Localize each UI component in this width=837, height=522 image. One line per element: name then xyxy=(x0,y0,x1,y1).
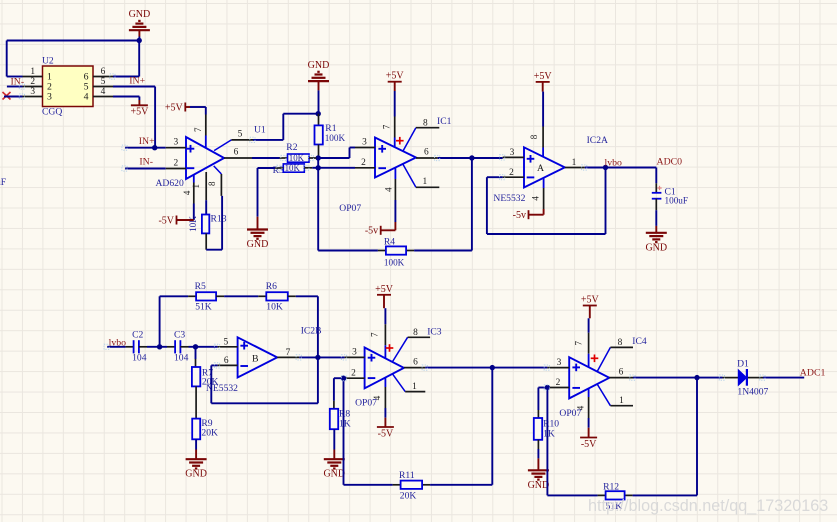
svg-text:GND: GND xyxy=(185,469,207,480)
AD620 pin8 xyxy=(207,166,221,196)
svg-text:3: 3 xyxy=(557,358,562,368)
svg-text:GND: GND xyxy=(528,480,550,491)
svg-text:6: 6 xyxy=(101,67,106,77)
svg-text:10K: 10K xyxy=(285,163,301,173)
wire R6 to output junction xyxy=(296,296,318,357)
wire R5 to R6 xyxy=(224,295,266,297)
wire C2 to C3 xyxy=(139,346,175,348)
svg-text:100K: 100K xyxy=(384,257,405,267)
junction R2 right / R1 bottom xyxy=(316,155,321,160)
wire AD620 pin6 to R2 xyxy=(252,157,288,159)
svg-text:4: 4 xyxy=(576,405,586,410)
junction C3-R7 xyxy=(193,344,198,367)
resistor R10 1K xyxy=(534,388,559,440)
IC3 pin3 xyxy=(345,348,365,358)
IC2A pin8 xyxy=(529,92,543,157)
svg-text:-5V: -5V xyxy=(158,215,174,226)
wire IC2A output to ADC0 xyxy=(585,167,657,169)
svg-text:7: 7 xyxy=(381,124,391,129)
power +5V to IC3 pin7 xyxy=(375,284,394,308)
svg-text:+5V: +5V xyxy=(534,71,553,82)
svg-text:8: 8 xyxy=(423,118,428,128)
svg-text:D1: D1 xyxy=(737,359,749,370)
wire IC2B feedback loop xyxy=(211,357,318,403)
svg-text:IN+: IN+ xyxy=(139,136,155,147)
svg-text:-5V: -5V xyxy=(378,428,394,439)
svg-text:20K: 20K xyxy=(400,490,417,501)
svg-text:10K: 10K xyxy=(266,301,283,312)
ground GND below C1 xyxy=(645,210,667,253)
svg-text:GND: GND xyxy=(247,239,269,250)
svg-text:7: 7 xyxy=(370,332,380,337)
wire IC2A feedback loop xyxy=(487,168,606,235)
net label ADC0 xyxy=(657,157,683,168)
net label lvbo at C2 xyxy=(107,337,133,348)
junction lvbo xyxy=(603,158,622,171)
IC2A pin1 output xyxy=(565,158,585,168)
svg-text:3: 3 xyxy=(510,148,515,158)
ground GND above R1 xyxy=(308,60,330,114)
op-amp IC4 OP07 triangle xyxy=(559,357,609,419)
IC3 pin7 xyxy=(370,308,386,358)
svg-text:4: 4 xyxy=(531,196,541,201)
svg-text:A: A xyxy=(537,163,544,174)
junction C2-C3 to R5 branch xyxy=(157,296,162,349)
IC2B pin7 output xyxy=(277,348,299,358)
IC2B pin5 xyxy=(218,338,238,348)
wire R3 junction to OP07 pin2 xyxy=(318,167,355,169)
svg-text:2: 2 xyxy=(556,378,561,388)
svg-text:6: 6 xyxy=(424,148,429,158)
power +5V to IC2A pin8 xyxy=(534,71,553,92)
op-amp IC1 OP07 triangle xyxy=(339,138,416,215)
svg-text:GND: GND xyxy=(645,242,667,253)
svg-text:3: 3 xyxy=(47,92,52,103)
svg-text:2: 2 xyxy=(351,369,356,379)
svg-text:2: 2 xyxy=(173,158,178,168)
svg-text:5: 5 xyxy=(238,130,243,140)
svg-text:OP07: OP07 xyxy=(339,203,361,214)
stray text uF at left edge xyxy=(0,177,6,188)
svg-text:IC3: IC3 xyxy=(427,326,442,337)
svg-text:-5v: -5v xyxy=(365,226,378,237)
op-amp IC2A NE5532 triangle xyxy=(493,135,608,204)
net label IN- at AD620 xyxy=(125,157,166,169)
svg-text:IC4: IC4 xyxy=(632,336,647,347)
resistor R5 51K xyxy=(160,281,225,313)
svg-text:R2: R2 xyxy=(286,142,297,153)
capacitor C1 100uF xyxy=(652,183,688,210)
IC1 pin6 output xyxy=(416,148,438,159)
AD620 pin1 xyxy=(191,172,206,200)
svg-text:8: 8 xyxy=(529,134,539,139)
svg-text:R6: R6 xyxy=(266,281,277,292)
svg-text:8: 8 xyxy=(618,338,623,348)
svg-text:6: 6 xyxy=(413,358,418,368)
svg-text:ADC0: ADC0 xyxy=(657,157,683,168)
junction feedback R4 xyxy=(469,155,474,160)
ground GND below R10 xyxy=(528,440,550,491)
svg-text:+5V: +5V xyxy=(581,295,600,306)
AD620 pin6 output xyxy=(224,148,252,159)
wire R13 bottom loop to pin8 xyxy=(206,196,222,250)
svg-text:-5V: -5V xyxy=(581,439,597,450)
AD620 pin3 input xyxy=(166,138,186,148)
svg-text:4: 4 xyxy=(84,92,89,103)
svg-text:+5V: +5V xyxy=(386,71,405,82)
IC4 pin7 xyxy=(574,318,589,367)
resistor R4 100K xyxy=(384,236,406,267)
wire GND junction down to U2 pin6 xyxy=(113,41,139,77)
component U2 CGQ body xyxy=(42,55,93,117)
IC4 pin4 and -5V xyxy=(576,388,598,449)
IC2A pin3 xyxy=(503,148,524,158)
svg-text:-5v: -5v xyxy=(513,210,526,221)
svg-text:1K: 1K xyxy=(543,429,555,440)
svg-text:7: 7 xyxy=(193,127,203,132)
op-amp IC2B NE5532 triangle xyxy=(206,325,321,394)
svg-text:IC2A: IC2A xyxy=(587,135,608,146)
IC4 pin6 output xyxy=(609,368,633,378)
svg-text:+5V: +5V xyxy=(375,284,394,295)
wire feedback through R4 xyxy=(318,158,472,251)
svg-text:5: 5 xyxy=(223,338,228,348)
IC4 pin2 xyxy=(547,378,569,388)
svg-text:104: 104 xyxy=(132,353,147,364)
AD620 pin7 xyxy=(193,107,206,148)
IC3 pin8 stub xyxy=(393,326,442,361)
svg-text:R13: R13 xyxy=(211,214,227,225)
svg-text:4: 4 xyxy=(182,190,192,195)
power +5V on U2 pin4 xyxy=(113,97,149,118)
svg-text:100K: 100K xyxy=(325,133,346,143)
svg-text:10K: 10K xyxy=(289,153,305,163)
svg-text:8: 8 xyxy=(207,181,217,186)
IC3 pin1 stub xyxy=(393,374,426,392)
svg-text:6: 6 xyxy=(224,356,229,366)
svg-text:R4: R4 xyxy=(384,236,395,247)
IC4 red plus supply mark xyxy=(591,355,599,363)
svg-text:8: 8 xyxy=(413,328,418,338)
U2 pins right 6 5 4 xyxy=(84,67,113,102)
wire IC4 output to D1 xyxy=(633,377,723,379)
IC3 pin4 and -5V xyxy=(372,378,394,440)
ground GND top-left xyxy=(129,9,151,41)
AD620 pin2 input xyxy=(166,158,186,168)
junction IN+ wire xyxy=(152,145,157,150)
svg-text:1: 1 xyxy=(30,67,35,77)
svg-text:1: 1 xyxy=(572,158,577,168)
wire D1 to ADC1 xyxy=(763,377,804,379)
power +5V to AD620 pin7 xyxy=(165,102,206,113)
svg-text:ADC1: ADC1 xyxy=(800,367,826,378)
net label IN+ at AD620 xyxy=(125,136,166,148)
diode D1 1N4007 xyxy=(723,359,769,398)
resistor R2 10K xyxy=(286,142,309,163)
svg-text:3: 3 xyxy=(30,87,35,97)
wire U2 pin5 to AD620 IN+ xyxy=(113,87,155,148)
svg-text:+5V: +5V xyxy=(130,107,149,118)
net label IN- on U2 pin2 xyxy=(7,76,24,87)
svg-text:GND: GND xyxy=(323,469,345,480)
resistor R8 1K xyxy=(330,378,351,430)
svg-text:5: 5 xyxy=(101,77,106,87)
IC1 pin4 and -5v xyxy=(365,168,396,237)
svg-text:4: 4 xyxy=(101,87,106,97)
svg-text:100uF: 100uF xyxy=(665,196,689,206)
svg-text:2: 2 xyxy=(361,158,366,168)
svg-text:20K: 20K xyxy=(201,427,218,438)
svg-text:IC1: IC1 xyxy=(437,116,452,127)
IC1 pin2 xyxy=(355,158,375,168)
junction IC3 output feedback xyxy=(490,365,495,370)
ground GND below R3 wire xyxy=(247,168,269,250)
svg-text:uF: uF xyxy=(0,177,6,188)
power +5V to IC1 pin7 xyxy=(386,71,405,91)
junction R3 right xyxy=(304,158,321,171)
svg-text:4: 4 xyxy=(384,187,394,192)
watermark xyxy=(588,497,828,515)
svg-text:NE5532: NE5532 xyxy=(493,193,525,204)
svg-text:3: 3 xyxy=(352,348,357,358)
hotspot markers xyxy=(19,74,765,390)
svg-text:1: 1 xyxy=(619,396,624,406)
junction IC4 output feedback xyxy=(694,375,699,380)
svg-text:1: 1 xyxy=(422,177,427,187)
resistor R11 20K xyxy=(399,470,422,501)
svg-text:2: 2 xyxy=(30,77,35,87)
IC3 pin6 output xyxy=(404,358,425,368)
svg-text:C3: C3 xyxy=(174,330,185,341)
resistor R12 51K xyxy=(603,481,625,512)
IC1 pin8 stub xyxy=(403,116,452,152)
IC4 pin8 stub xyxy=(597,336,647,372)
wire U2 pin1 to GND net xyxy=(7,41,140,77)
wire IC1 output to IC2A pin3 xyxy=(438,157,503,159)
ground GND below R8 xyxy=(323,429,345,480)
resistor R1 100K xyxy=(315,114,346,158)
svg-text:IN-: IN- xyxy=(139,157,153,168)
wire R7 to R9 xyxy=(195,386,197,418)
svg-text:R5: R5 xyxy=(195,281,206,292)
IC4 pin1 stub xyxy=(597,384,633,406)
svg-text:1K: 1K xyxy=(339,419,351,430)
IC1 pin1 stub xyxy=(403,164,440,187)
svg-text:R12: R12 xyxy=(603,481,619,492)
svg-text:6: 6 xyxy=(619,368,624,378)
op-amp U1 AD620 triangle xyxy=(156,137,225,189)
wire AD620 pin5 to GND net above R1 xyxy=(253,114,318,140)
svg-text:1: 1 xyxy=(412,382,417,392)
ground GND below R9 xyxy=(185,439,207,479)
svg-text:C2: C2 xyxy=(132,330,143,341)
junction at GND stem xyxy=(137,38,142,43)
junction IC4 pin2 node xyxy=(538,385,550,390)
wire R2 junction to OP07 pin3 xyxy=(309,148,355,159)
IC1 pin3 xyxy=(355,137,375,147)
svg-text:IN+: IN+ xyxy=(129,76,145,87)
svg-text:http://blog.csdn.net/qq_173201: http://blog.csdn.net/qq_17320163 xyxy=(588,497,828,515)
AD620 pin5 REF xyxy=(214,124,266,150)
U2 pins left 1 2 3 xyxy=(23,67,53,102)
wire down to C1 xyxy=(655,168,657,184)
resistor R6 10K xyxy=(266,281,296,313)
svg-text:51K: 51K xyxy=(195,301,212,312)
svg-text:U2: U2 xyxy=(42,55,54,66)
svg-text:3: 3 xyxy=(362,137,367,147)
junction R1 top xyxy=(316,111,321,116)
svg-text:IC2B: IC2B xyxy=(301,325,322,336)
svg-text:104: 104 xyxy=(174,353,189,364)
AD620 pin4 and -5V xyxy=(158,175,193,227)
wire IC3 output to IC4 pin3 xyxy=(425,367,547,369)
wire GND to R3 left xyxy=(258,167,284,169)
svg-text:1: 1 xyxy=(191,184,201,189)
svg-text:1N4007: 1N4007 xyxy=(737,387,768,398)
svg-text:CGQ: CGQ xyxy=(42,107,62,118)
svg-text:GND: GND xyxy=(308,60,330,71)
svg-text:lvbo: lvbo xyxy=(605,158,623,169)
IC3 pin2 xyxy=(345,369,365,379)
capacitor C2 104 xyxy=(132,330,147,364)
wire C3 to IC2B pin5 xyxy=(180,346,217,348)
resistor R13 10K gain xyxy=(189,200,227,233)
IC1 red plus supply mark xyxy=(396,137,404,145)
svg-text:R11: R11 xyxy=(399,470,415,481)
svg-text:3: 3 xyxy=(173,138,178,148)
svg-text:7: 7 xyxy=(574,340,584,345)
svg-text:6: 6 xyxy=(234,148,239,158)
svg-text:B: B xyxy=(252,353,259,364)
IC3 red plus supply mark xyxy=(386,344,394,352)
svg-text:GND: GND xyxy=(129,9,151,20)
no-ERC marker on U2 pin3 xyxy=(3,92,23,100)
capacitor C3 104 xyxy=(174,330,189,364)
svg-text:4: 4 xyxy=(372,395,382,400)
IC2A pin4 and -5v xyxy=(513,178,544,221)
svg-text:2: 2 xyxy=(509,168,514,178)
svg-text:7: 7 xyxy=(286,348,291,358)
net label IN+ on U2 pin5 wire xyxy=(129,76,145,87)
net label ADC1 xyxy=(800,367,826,378)
IC2A pin2 xyxy=(503,168,524,178)
resistor R9 20K xyxy=(192,418,218,440)
junction IC2B output xyxy=(315,355,320,360)
IC2B pin6 xyxy=(218,356,238,366)
svg-text:AD620: AD620 xyxy=(156,178,184,189)
wire IC3 feedback through R11 xyxy=(344,368,493,485)
junction IC3 pin2 node xyxy=(334,376,346,381)
resistor R7 20K xyxy=(192,367,219,388)
wire IC2B output to IC3 pin3 xyxy=(299,356,344,358)
op-amp IC3 OP07 triangle xyxy=(355,348,404,409)
IC4 pin3 xyxy=(547,358,569,368)
svg-text:U1: U1 xyxy=(254,124,266,135)
power +5V to IC4 pin7 xyxy=(581,295,600,319)
IC1 pin7 xyxy=(381,91,394,148)
svg-text:+5V: +5V xyxy=(165,102,184,113)
resistor R3 10K xyxy=(273,163,305,176)
wire IC4 feedback through R12 xyxy=(547,378,697,496)
